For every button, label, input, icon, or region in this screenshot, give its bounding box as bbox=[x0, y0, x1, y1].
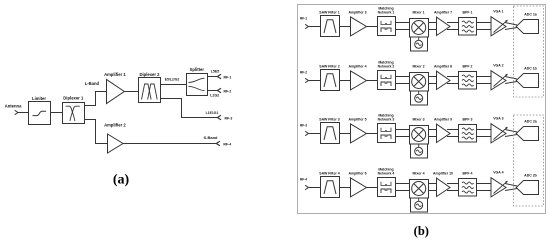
svg-text:ADC 2a: ADC 2a bbox=[524, 119, 537, 123]
svg-text:RF-3: RF-3 bbox=[225, 116, 233, 120]
SAW Filter 4 bbox=[319, 171, 339, 197]
svg-text:Amplifier 8: Amplifier 8 bbox=[434, 64, 452, 68]
wire diplexer 2 to splitter, node E5/L2/G2 bbox=[161, 77, 187, 84]
svg-text:RF-4: RF-4 bbox=[223, 142, 231, 146]
wire pair BPF 2 to VGA 2 bbox=[477, 77, 491, 84]
svg-text:BPF 4: BPF 4 bbox=[463, 171, 473, 175]
svg-text:ADC 1a: ADC 1a bbox=[524, 12, 537, 16]
wire splitter to RF-1, node L5E5 bbox=[208, 70, 220, 77]
svg-text:L2G2: L2G2 bbox=[210, 94, 219, 98]
wire amplifier 1 to diplexer 2 bbox=[124, 91, 138, 93]
band-pass filter BPF 4 bbox=[459, 171, 477, 196]
svg-text:L1E1G1: L1E1G1 bbox=[206, 111, 219, 115]
svg-text:Amplifier 9: Amplifier 9 bbox=[434, 117, 452, 121]
svg-text:(a): (a) bbox=[113, 172, 130, 187]
wire RF-4 port to SAW Filter 4 bbox=[308, 187, 320, 189]
svg-text:RF-2: RF-2 bbox=[300, 71, 307, 75]
ADC 1b bbox=[516, 66, 538, 87]
wire pair VGA 1 to ADC 1a bbox=[505, 23, 517, 30]
svg-text:Diplexer 2: Diplexer 2 bbox=[139, 72, 160, 77]
svg-text:BPF 1: BPF 1 bbox=[463, 10, 473, 14]
svg-text:Network 3: Network 3 bbox=[378, 118, 395, 122]
node RF-4 output port (a) bbox=[216, 141, 231, 146]
svg-text:RF-1: RF-1 bbox=[224, 75, 232, 79]
wire Amplifier 5 to Matching Network 3 bbox=[367, 133, 378, 135]
svg-text:Network 2: Network 2 bbox=[378, 65, 395, 69]
node RF-4 input port (b) row 4 bbox=[300, 178, 308, 190]
wire SAW Filter 3 to Amplifier 5 bbox=[340, 133, 351, 135]
ADC 1a bbox=[516, 12, 538, 33]
svg-text:SAW Filter 3: SAW Filter 3 bbox=[319, 117, 339, 121]
amplifier Amplifier 1 bbox=[104, 72, 126, 103]
variable gain amplifier VGA 4 bbox=[491, 171, 508, 197]
variable gain amplifier VGA 1 bbox=[491, 10, 508, 36]
local oscillator for Mixer 4 bbox=[411, 198, 428, 212]
wire pair Matching Network 3 to Mixer 3 bbox=[395, 130, 409, 137]
band-pass filter BPF 3 bbox=[459, 117, 477, 142]
svg-text:Network 4: Network 4 bbox=[378, 172, 395, 176]
wire diplexer 1 S-band output to amplifier 2 bbox=[85, 120, 108, 144]
svg-text:SAW Filter 1: SAW Filter 1 bbox=[319, 10, 339, 14]
wire SAW Filter 2 to Amplifier 4 bbox=[340, 80, 351, 82]
antenna input port bbox=[5, 104, 22, 115]
wire Amplifier 3 to Matching Network 1 bbox=[367, 26, 378, 28]
wire antenna to limiter bbox=[18, 112, 29, 114]
wire pair Mixer 2 to Amplifier 8 bbox=[429, 77, 437, 84]
wire diplexer 1 L-band output to amplifier 1 bbox=[85, 92, 107, 106]
SAW Filter 1 bbox=[319, 10, 339, 36]
wire pair BPF 3 to VGA 3 bbox=[477, 130, 491, 137]
mixer Mixer 2 bbox=[410, 65, 429, 91]
wire RF-1 port to SAW Filter 1 bbox=[308, 26, 320, 28]
limiter bbox=[29, 96, 51, 124]
node RF-2 input port (b) row 2 bbox=[300, 71, 308, 83]
wire Amplifier 4 to Matching Network 2 bbox=[367, 80, 378, 82]
wire pair Matching Network 4 to Mixer 4 bbox=[395, 184, 409, 191]
svg-text:Diplexer 1: Diplexer 1 bbox=[63, 95, 84, 100]
wire pair Mixer 1 to Amplifier 7 bbox=[429, 23, 437, 30]
band-pass filter BPF 2 bbox=[459, 64, 477, 89]
svg-text:BPF 3: BPF 3 bbox=[463, 117, 473, 121]
wire pair Mixer 3 to Amplifier 9 bbox=[429, 130, 437, 137]
svg-text:Amplifier 5: Amplifier 5 bbox=[348, 117, 366, 121]
wire pair Amplifier 10 to BPF 4 bbox=[447, 184, 459, 191]
svg-text:RF-1: RF-1 bbox=[300, 17, 307, 21]
svg-text:ADC 2b: ADC 2b bbox=[524, 173, 537, 177]
wire splitter to RF-2, node L2G2 bbox=[208, 91, 220, 98]
svg-text:Limiter: Limiter bbox=[32, 96, 46, 101]
diplexer Diplexer 2 bbox=[139, 72, 161, 103]
amplifier Amplifier 7 bbox=[434, 10, 452, 35]
svg-text:Amplifier 1: Amplifier 1 bbox=[104, 72, 126, 77]
svg-text:Splitter: Splitter bbox=[190, 67, 205, 72]
matching network Matching Network 2 bbox=[378, 60, 396, 89]
wire pair BPF 4 to VGA 4 bbox=[477, 184, 491, 191]
matching network Matching Network 1 bbox=[378, 6, 396, 35]
dashed enclosure ADC 2a/2b bbox=[514, 115, 544, 206]
node RF-3 output port (a) bbox=[217, 115, 232, 120]
svg-text:Amplifier 2: Amplifier 2 bbox=[104, 123, 126, 128]
matching network Matching Network 3 bbox=[378, 113, 396, 142]
wire pair Matching Network 1 to Mixer 1 bbox=[395, 23, 409, 30]
svg-text:VGA 4: VGA 4 bbox=[493, 171, 503, 175]
wire Amplifier 6 to Matching Network 4 bbox=[367, 187, 378, 189]
dashed enclosure ADC 1a/1b bbox=[514, 6, 544, 97]
ADC 2b bbox=[516, 173, 538, 194]
svg-text:(b): (b) bbox=[414, 224, 429, 238]
mixer Mixer 1 bbox=[410, 11, 429, 37]
wire SAW Filter 1 to Amplifier 3 bbox=[340, 26, 351, 28]
svg-text:VGA 1: VGA 1 bbox=[493, 10, 503, 14]
svg-text:Amplifier 10: Amplifier 10 bbox=[433, 171, 453, 175]
svg-text:Amplifier 7: Amplifier 7 bbox=[434, 10, 452, 14]
diplexer Diplexer 1 bbox=[63, 95, 85, 123]
amplifier Amplifier 4 bbox=[348, 64, 366, 90]
SAW Filter 2 bbox=[319, 64, 339, 90]
svg-text:Amplifier 3: Amplifier 3 bbox=[348, 10, 366, 14]
svg-text:SAW Filter 4: SAW Filter 4 bbox=[319, 171, 339, 175]
mixer Mixer 4 bbox=[410, 172, 429, 198]
svg-text:Network 1: Network 1 bbox=[378, 11, 395, 15]
mixer Mixer 3 bbox=[410, 118, 429, 144]
svg-text:SAW Filter 2: SAW Filter 2 bbox=[319, 64, 339, 68]
wire RF-2 port to SAW Filter 2 bbox=[308, 80, 320, 82]
amplifier Amplifier 6 bbox=[348, 171, 366, 197]
local oscillator for Mixer 3 bbox=[411, 144, 428, 158]
amplifier Amplifier 3 bbox=[348, 10, 366, 36]
node RF-1 input port (b) row 1 bbox=[300, 17, 308, 29]
svg-text:RF-2: RF-2 bbox=[224, 89, 232, 93]
svg-text:S-Band: S-Band bbox=[204, 135, 219, 140]
ADC 2a bbox=[516, 119, 538, 140]
node RF-1 output port (a) bbox=[217, 74, 231, 79]
wire RF-3 port to SAW Filter 3 bbox=[308, 133, 320, 135]
SAW Filter 3 bbox=[319, 117, 339, 143]
diagram (b) outer border bbox=[298, 5, 546, 214]
wire pair Amplifier 9 to BPF 3 bbox=[447, 130, 459, 137]
svg-text:RF-3: RF-3 bbox=[300, 124, 307, 128]
wire pair BPF 1 to VGA 1 bbox=[477, 23, 491, 30]
variable gain amplifier VGA 3 bbox=[491, 117, 508, 143]
amplifier Amplifier 10 bbox=[433, 171, 453, 196]
amplifier Amplifier 2 bbox=[104, 123, 126, 153]
amplifier Amplifier 9 bbox=[434, 117, 452, 142]
wire pair Matching Network 2 to Mixer 2 bbox=[395, 77, 409, 84]
wire pair Amplifier 8 to BPF 2 bbox=[447, 77, 459, 84]
svg-text:VGA 2: VGA 2 bbox=[493, 64, 503, 68]
matching network Matching Network 4 bbox=[378, 167, 396, 196]
svg-text:L-Band: L-Band bbox=[85, 81, 100, 86]
local oscillator for Mixer 2 bbox=[411, 91, 428, 105]
svg-text:Mixer 2: Mixer 2 bbox=[412, 65, 424, 69]
band-pass filter BPF 1 bbox=[459, 10, 477, 35]
wire pair Amplifier 7 to BPF 1 bbox=[447, 23, 459, 30]
svg-text:BPF 2: BPF 2 bbox=[463, 64, 473, 68]
node RF-2 output port (a) bbox=[217, 88, 231, 93]
wire SAW Filter 4 to Amplifier 6 bbox=[340, 187, 351, 189]
wire diplexer 2 to RF-3, node L1E1G1 bbox=[161, 99, 219, 118]
wire pair VGA 2 to ADC 1b bbox=[505, 77, 517, 84]
wire pair Mixer 4 to Amplifier 10 bbox=[429, 184, 437, 191]
wire limiter to diplexer 1 bbox=[51, 112, 63, 114]
splitter bbox=[187, 67, 208, 96]
svg-text:Antenna: Antenna bbox=[5, 104, 22, 109]
amplifier Amplifier 8 bbox=[434, 64, 452, 89]
svg-text:L5E5: L5E5 bbox=[211, 70, 220, 74]
svg-text:Mixer 4: Mixer 4 bbox=[412, 172, 424, 176]
svg-text:RF-4: RF-4 bbox=[300, 178, 307, 182]
local oscillator for Mixer 1 bbox=[411, 37, 428, 51]
node RF-3 input port (b) row 3 bbox=[300, 124, 308, 136]
svg-text:Mixer 3: Mixer 3 bbox=[412, 118, 424, 122]
variable gain amplifier VGA 2 bbox=[491, 64, 508, 90]
svg-text:ADC 1b: ADC 1b bbox=[524, 66, 537, 70]
wire pair VGA 4 to ADC 2b bbox=[505, 184, 517, 191]
svg-text:Amplifier 6: Amplifier 6 bbox=[348, 171, 366, 175]
svg-text:Amplifier 4: Amplifier 4 bbox=[348, 64, 366, 68]
svg-text:E5/L2/G2: E5/L2/G2 bbox=[165, 77, 180, 81]
svg-text:Mixer 1: Mixer 1 bbox=[412, 11, 424, 15]
wire amplifier 2 to RF-4, node S-Band bbox=[123, 135, 218, 144]
svg-text:VGA 3: VGA 3 bbox=[493, 117, 503, 121]
amplifier Amplifier 5 bbox=[348, 117, 366, 143]
wire pair VGA 3 to ADC 2a bbox=[505, 130, 517, 137]
